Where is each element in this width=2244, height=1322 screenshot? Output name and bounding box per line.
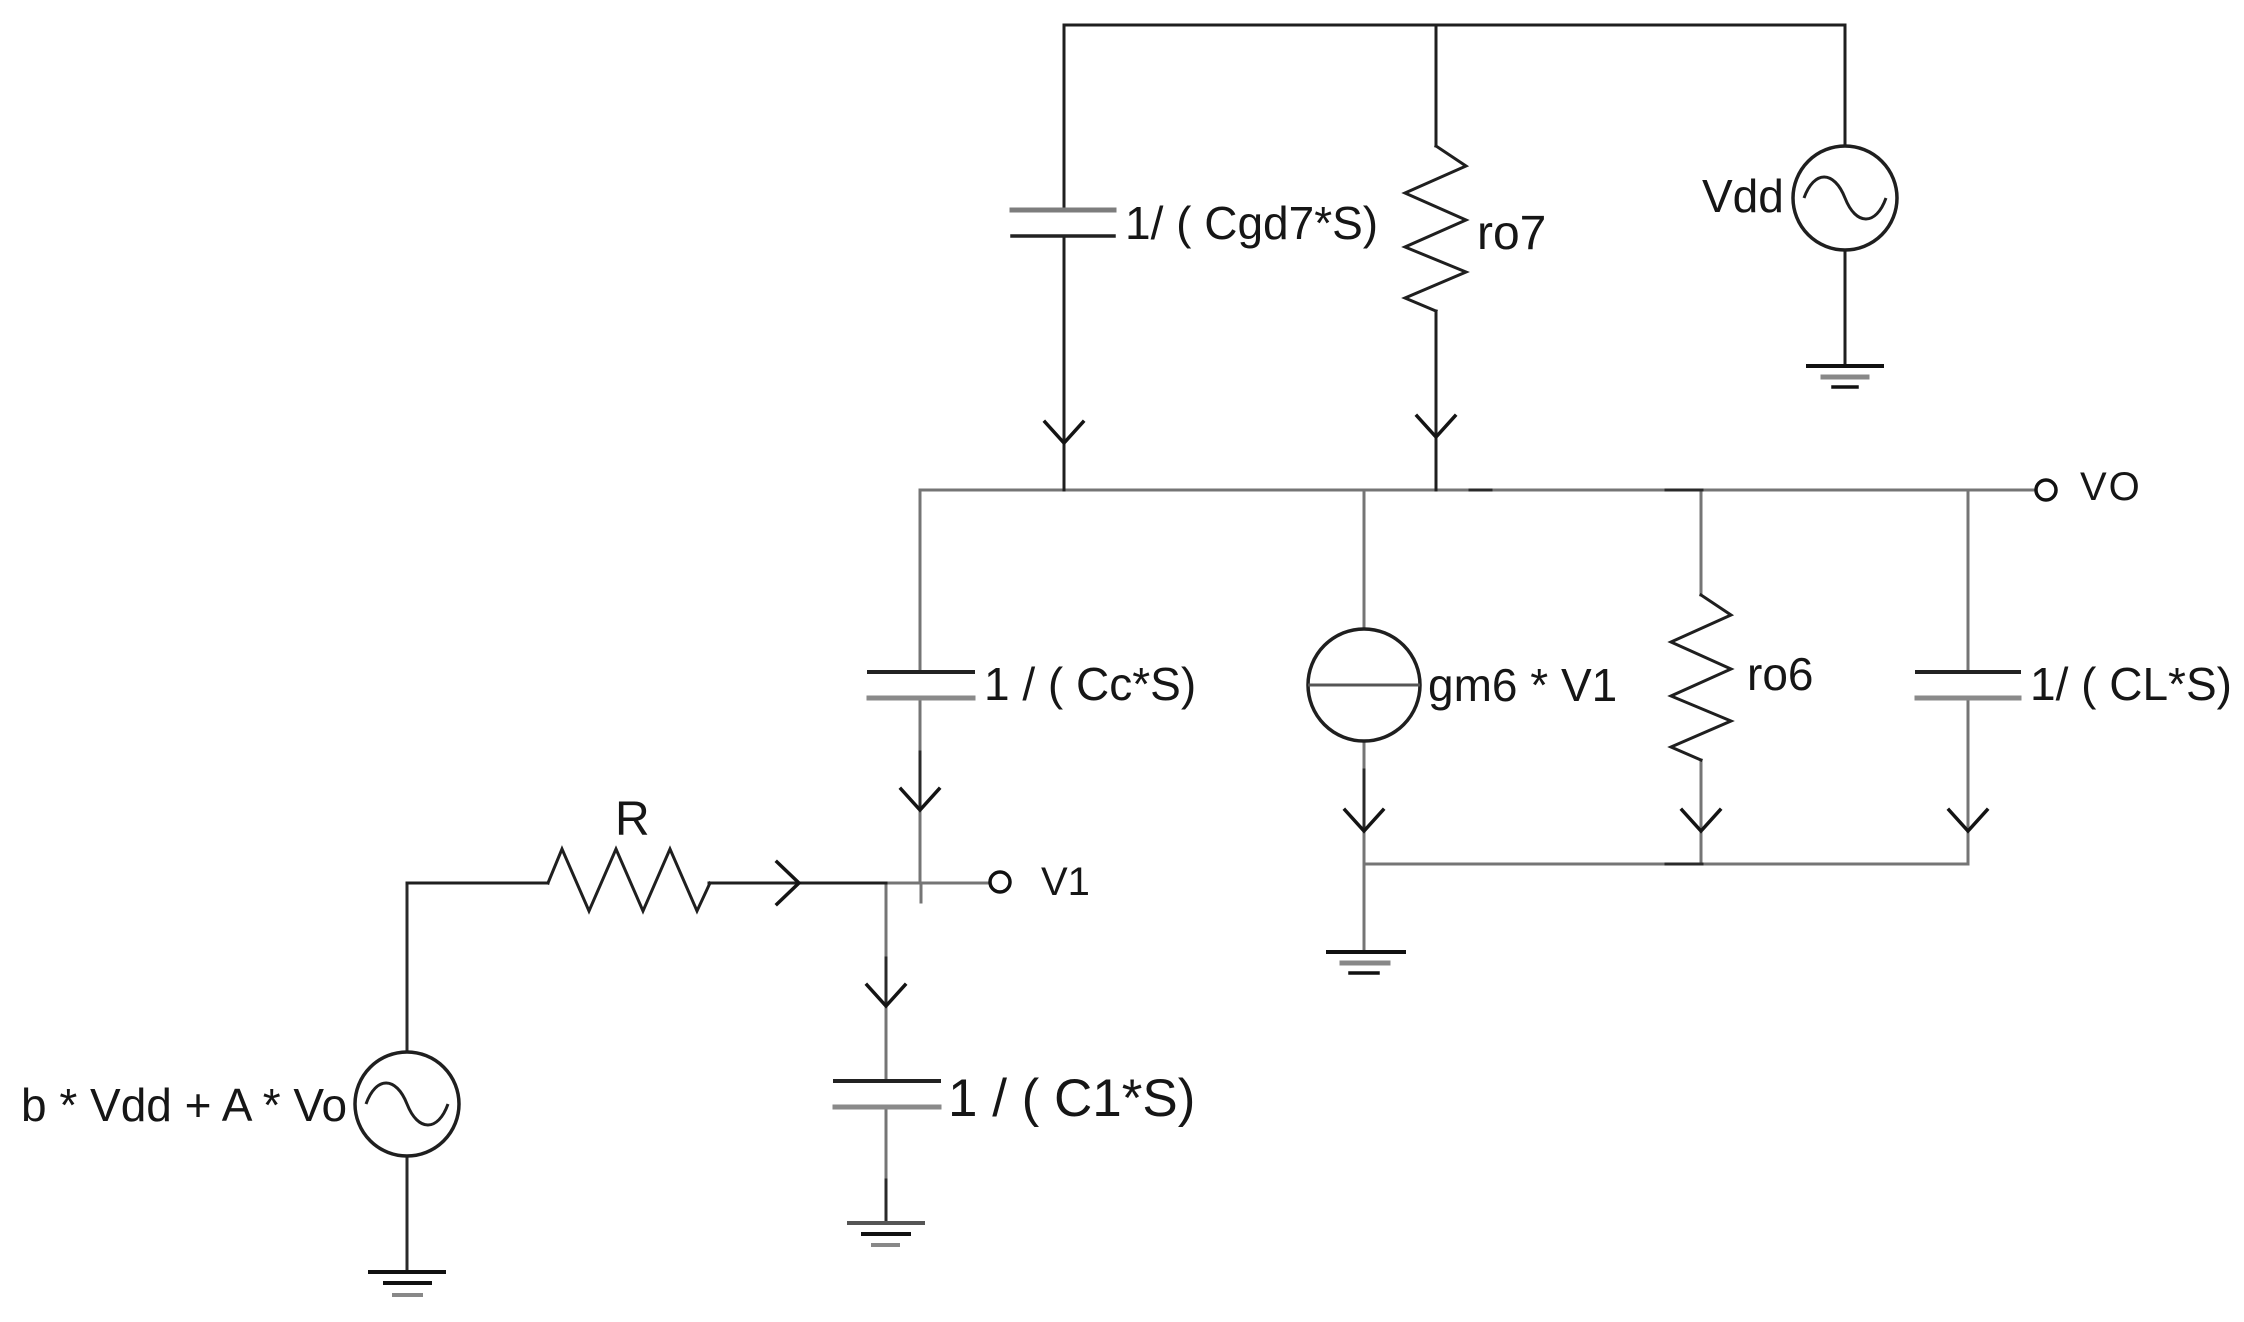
svg-text:R: R <box>615 793 650 846</box>
svg-text:VO: VO <box>2080 465 2142 509</box>
svg-text:1 / ( Cc*S): 1 / ( Cc*S) <box>984 658 1196 710</box>
svg-text:b * Vdd + A * Vo: b * Vdd + A * Vo <box>21 1079 347 1131</box>
svg-text:ro6: ro6 <box>1747 648 1813 700</box>
svg-text:gm6 * V1: gm6 * V1 <box>1428 659 1617 711</box>
svg-text:ro7: ro7 <box>1477 207 1546 260</box>
svg-text:1 / ( C1*S): 1 / ( C1*S) <box>948 1069 1195 1128</box>
svg-text:Vdd: Vdd <box>1702 170 1784 222</box>
svg-text:V1: V1 <box>1041 860 1090 904</box>
svg-text:1/ ( Cgd7*S): 1/ ( Cgd7*S) <box>1125 197 1378 249</box>
svg-text:1/ ( CL*S): 1/ ( CL*S) <box>2030 658 2232 710</box>
